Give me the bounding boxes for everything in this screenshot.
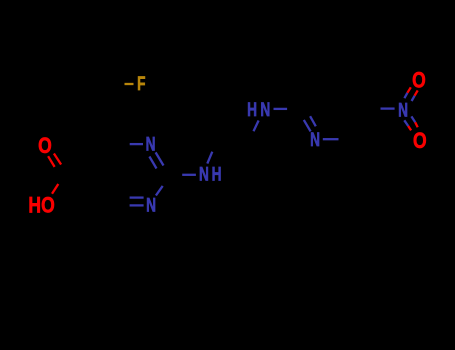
bond C6=N1 inner line [130, 196, 144, 198]
bond NH-CH2 (half near NH) [207, 152, 212, 164]
svg-text:N: N [310, 129, 320, 151]
svg-text:O: O [41, 194, 55, 219]
bond C5'-N nitro (half near N) [381, 107, 395, 109]
svg-text:F: F [137, 73, 145, 95]
bond N=O bottom, line a, N half [404, 120, 408, 126]
bond N=O top, line a, O half [407, 87, 410, 93]
svg-text:O: O [412, 69, 426, 94]
bond C2=N3 main line (half near N3) [156, 152, 164, 165]
bond C4-N3 (half near N3) [130, 143, 143, 145]
svg-text:N: N [199, 163, 209, 185]
bond CH2-NH (half near HN of pyridine side) [254, 121, 259, 132]
bond C2'=N1' inner line [310, 116, 316, 126]
bond C2-NH (half near NH) [182, 174, 196, 176]
svg-text:H: H [247, 99, 257, 121]
bond N=O bottom, line a, O half [408, 126, 411, 130]
bond C=O double line a [48, 156, 55, 167]
svg-text:N: N [398, 99, 408, 121]
svg-text:H: H [28, 194, 41, 219]
bond N=O top, line a, N half [404, 93, 407, 98]
bond N=O bottom, line b, N half [411, 116, 415, 122]
bond N1'-C6' (half near N1') [323, 138, 339, 140]
bond C2=N3 inner line [149, 157, 156, 169]
svg-text:H: H [212, 163, 222, 185]
bond N=O top, line b, N half [412, 96, 415, 101]
svg-text:O: O [413, 129, 427, 154]
bond N1-C2 (half near N1) [156, 186, 163, 196]
bond C=O double line b [54, 154, 61, 165]
svg-text:O: O [38, 134, 52, 159]
bond C2'=N1' main line (half near N1') [304, 120, 311, 131]
svg-text:N: N [260, 99, 270, 121]
bond N=O top, line b, O half [415, 90, 418, 95]
svg-text:N: N [146, 133, 156, 155]
svg-text:N: N [146, 194, 156, 216]
bond N=O bottom, line b, O half [415, 122, 418, 127]
bond C6=N1 main line (half near N1) [130, 204, 144, 206]
bond HN-C2' of pyridine (half near HN) [274, 108, 288, 110]
bond O-C of hydroxyl (half near O) [52, 184, 58, 194]
bond C-F (half near F) [125, 83, 134, 85]
